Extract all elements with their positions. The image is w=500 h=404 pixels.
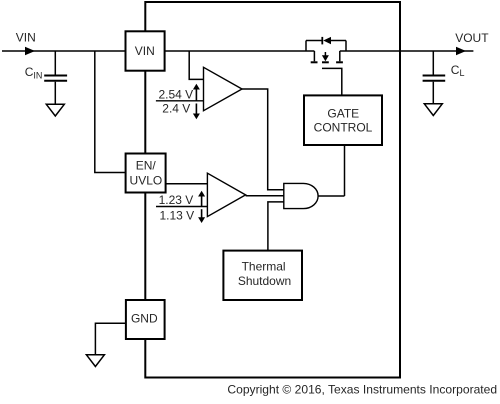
- block EN/UVLO: [126, 154, 166, 193]
- svg-text:EN/: EN/: [136, 158, 157, 172]
- svg-text:Thermal: Thermal: [242, 260, 286, 274]
- svg-text:2.54 V: 2.54 V: [158, 87, 193, 101]
- hysteresis down arrow U1: [195, 104, 197, 115]
- ground symbol at CIN: [46, 104, 64, 116]
- svg-text:UVLO: UVLO: [130, 173, 163, 187]
- ground symbol at GND: [86, 355, 104, 367]
- wire EN/UVLO output to comparator U2: [166, 183, 208, 185]
- transistor M1 gate: [322, 68, 342, 95]
- svg-text:VIN: VIN: [16, 30, 36, 44]
- wire rail from pass FET to VOUT: [340, 50, 474, 52]
- wire U2 output to AND: [246, 195, 284, 197]
- svg-text:GATE: GATE: [327, 106, 359, 120]
- wire thermal shutdown to AND: [268, 202, 284, 251]
- capacitor CL: [423, 75, 446, 77]
- capacitor CIN: [44, 75, 67, 77]
- op-amp U2 EN comparator: [207, 173, 245, 216]
- transistor M1 body diode: [305, 41, 307, 52]
- block GATE CONTROL: [304, 95, 382, 145]
- svg-text:2.4 V: 2.4 V: [162, 102, 190, 116]
- gate AND: [284, 183, 318, 208]
- wire AND output up to GATE CONTROL: [344, 145, 346, 196]
- svg-text:1.23 V: 1.23 V: [159, 193, 194, 207]
- svg-text:Copyright © 2016, Texas Instru: Copyright © 2016, Texas Instruments Inco…: [227, 383, 497, 397]
- svg-text:Shutdown: Shutdown: [238, 274, 291, 288]
- output arrowhead: [456, 47, 466, 55]
- hysteresis up arrow U1: [195, 89, 197, 101]
- svg-text:CONTROL: CONTROL: [314, 121, 373, 135]
- op-amp U1 UVLO comparator: [204, 67, 243, 110]
- block VIN: [126, 31, 165, 70]
- wire CL branch: [432, 51, 434, 75]
- svg-text:VIN: VIN: [135, 44, 155, 58]
- svg-text:1.13 V: 1.13 V: [159, 209, 194, 223]
- wire comparator U1 input from rail: [189, 51, 203, 79]
- input arrowhead: [25, 47, 35, 55]
- ground symbol at CL: [424, 104, 442, 116]
- hysteresis up arrow U2: [201, 196, 203, 207]
- wire VIN input rail: [2, 50, 126, 52]
- svg-text:VOUT: VOUT: [455, 31, 489, 45]
- transistor M1 body arrow: [324, 52, 326, 57]
- block Thermal Shutdown: [223, 251, 302, 300]
- wire U1 reference input: [156, 100, 204, 102]
- wire AND output: [318, 195, 344, 197]
- transistor M1 channel: [313, 51, 315, 61]
- block GND: [126, 300, 165, 339]
- hysteresis down arrow U2: [201, 209, 203, 218]
- wire GND to external ground: [95, 323, 126, 354]
- wire CIN branch: [54, 51, 56, 75]
- IC boundary rectangle: [145, 2, 400, 378]
- svg-text:GND: GND: [131, 312, 158, 326]
- wire U1 output to AND: [242, 89, 284, 190]
- wire rail from VIN block to pass FET: [165, 50, 315, 52]
- wire U2 reference input: [156, 206, 207, 208]
- wire EN branch down from input rail: [95, 51, 126, 173]
